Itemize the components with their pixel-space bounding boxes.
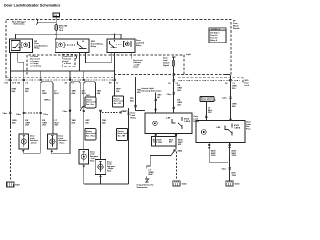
junction C4xx right — [229, 168, 231, 170]
wire actuator LR to bus3 — [83, 164, 85, 184]
ground G303 — [226, 181, 240, 186]
wire drop from bus — [41, 71, 84, 80]
door lock switch signal column — [172, 57, 176, 60]
svg-text:Pass: Pass — [246, 128, 252, 130]
svg-text:D2: D2 — [225, 83, 227, 85]
I/P fuse block dashed box — [6, 20, 231, 78]
dashed bottom border segment — [178, 78, 243, 84]
svg-text:Light: Light — [186, 53, 191, 56]
wire split bend right — [84, 82, 96, 97]
svg-text:G302: G302 — [182, 184, 188, 186]
callout switch driver — [81, 97, 97, 111]
node label right of relay H — [194, 115, 200, 123]
right column wire into I — [230, 97, 232, 99]
actuator left rear box — [79, 150, 89, 165]
courtesy lamp text rows — [30, 55, 42, 68]
svg-text:K12: K12 — [5, 83, 8, 85]
svg-text:C2xx: C2xx — [222, 98, 228, 100]
inner dashed courtesy box — [27, 55, 231, 75]
wire relay B coil pin down — [78, 53, 80, 72]
dashed ground wire — [9, 127, 11, 181]
fuse table box — [209, 28, 226, 43]
svg-text:C4xx: C4xx — [222, 168, 228, 171]
svg-text:Schematics: Schematics — [14, 23, 26, 26]
relay box H — [145, 113, 192, 134]
svg-text:Relay: Relay — [194, 121, 200, 123]
svg-text:Relay: Relay — [91, 46, 97, 48]
svg-text:DOOR LK: DOOR LK — [211, 29, 221, 31]
wire relay C indicator pin — [130, 53, 132, 59]
master lighting callout — [200, 97, 216, 102]
callout switch upper right — [113, 96, 125, 107]
column x100.5 — [100, 111, 102, 160]
svg-text:Sw - Pass: Sw - Pass — [86, 135, 96, 137]
actuator right rear box — [95, 160, 106, 175]
I top pins — [206, 119, 230, 121]
wire drop to relay C — [114, 34, 116, 39]
bus3 wire — [84, 183, 129, 185]
svg-text:Signal: Signal — [163, 65, 169, 67]
svg-text:C2: C2 — [26, 83, 28, 85]
I bottom pins — [209, 143, 228, 163]
svg-text:Relay: Relay — [131, 117, 137, 119]
coil symbol — [22, 42, 30, 47]
lower small boxes under H — [152, 137, 177, 147]
switch box I — [196, 121, 245, 143]
svg-text:C1 8: C1 8 — [12, 83, 16, 85]
bus wire top — [16, 34, 121, 39]
dotted connector line — [5, 79, 114, 81]
svg-text:G303: G303 — [235, 184, 241, 186]
column x128.5 riser — [128, 108, 130, 184]
svg-text:C2xx: C2xx — [167, 94, 173, 96]
svg-text:G301: G301 — [15, 185, 21, 187]
svg-text:A6: A6 — [65, 82, 67, 85]
wire relay B to relay C loop — [86, 53, 112, 63]
connector marks — [40, 79, 42, 81]
svg-text:295: 295 — [25, 91, 29, 93]
svg-text:C2xx: C2xx — [43, 114, 49, 116]
H bottom pins — [155, 134, 157, 147]
connector marks on dotted line — [9, 79, 231, 82]
junction dot G302 node — [173, 149, 175, 151]
svg-text:C9: C9 — [168, 83, 170, 85]
svg-text:295: 295 — [208, 112, 212, 114]
svg-text:C1: C1 — [72, 83, 74, 85]
svg-text:B4: B4 — [18, 82, 21, 85]
wire relay C pin down — [114, 53, 116, 97]
svg-text:C4xx: C4xx — [16, 113, 22, 116]
dashed to ground G302 — [176, 152, 178, 181]
svg-text:156: 156 — [116, 91, 120, 93]
svg-text:300: 300 — [232, 88, 236, 90]
svg-text:1150: 1150 — [232, 175, 237, 177]
ground G301 — [7, 182, 21, 187]
svg-text:Lamp: Lamp — [133, 67, 139, 69]
svg-text:Relay: Relay — [136, 45, 142, 47]
svg-text:Door Lock/Indicator Schematics: Door Lock/Indicator Schematics — [4, 4, 60, 8]
svg-text:Sw - RR: Sw - RR — [118, 135, 126, 137]
relay K2 box — [55, 39, 89, 53]
wire from relay C — [136, 77, 146, 111]
svg-text:C6xx: C6xx — [63, 111, 69, 113]
svg-text:C1: C1 — [116, 83, 118, 85]
svg-text:10 A: 10 A — [59, 29, 64, 32]
junction row C4xx left — [9, 80, 11, 127]
wire relay A left pin down — [9, 53, 11, 81]
wire split bend center — [70, 82, 80, 108]
svg-text:BLK: BLK — [149, 174, 154, 176]
svg-text:Schematics: Schematics — [137, 186, 149, 189]
svg-text:S402: S402 — [178, 150, 184, 153]
svg-text:1150: 1150 — [158, 142, 163, 144]
door lock actuator pass front box — [48, 134, 58, 149]
svg-text:Rear: Rear — [90, 160, 95, 163]
wire actuator RR to bus3 — [100, 175, 102, 185]
wire fuse to bus — [55, 31, 57, 39]
wire to output label — [147, 151, 175, 169]
svg-text:Sw - LR: Sw - LR — [114, 103, 122, 105]
svg-text:BLU: BLU — [54, 93, 59, 95]
wire from C2 to fuse — [55, 17, 57, 25]
svg-text:Sw - Drv: Sw - Drv — [86, 103, 95, 106]
svg-text:GRN △: GRN △ — [44, 99, 51, 102]
wire to H box — [155, 93, 157, 114]
svg-text:▲ Dome: ▲ Dome — [63, 62, 71, 65]
svg-text:Relay: Relay — [34, 48, 40, 50]
wire — [38, 22, 57, 24]
column x23.7 to door lock actuator driver — [23, 80, 25, 134]
svg-text:GRN: GRN — [42, 93, 47, 95]
callout switch lower right — [117, 129, 129, 141]
svg-text:▲ Courtesy: ▲ Courtesy — [30, 65, 42, 68]
dashed jumper — [102, 112, 120, 114]
svg-text:295: 295 — [55, 125, 59, 127]
relay K1 box — [10, 39, 33, 53]
svg-text:Lock: Lock — [245, 85, 250, 87]
node door lock indicator dashed box — [62, 54, 75, 67]
svg-text:295: 295 — [85, 122, 89, 124]
wire color labels at splice bends — [42, 89, 101, 97]
svg-text:1.4M B: 1.4M B — [234, 127, 241, 130]
wire split bend left — [41, 82, 53, 86]
svg-text:Details: Details — [233, 27, 240, 30]
actuator pass bottom wire — [52, 149, 70, 154]
column x70 — [69, 86, 71, 154]
svg-text:Switch Schematic: Switch Schematic — [201, 99, 216, 102]
svg-text:1150: 1150 — [211, 155, 216, 157]
connector C2 block — [53, 13, 60, 17]
svg-text:1.4M: 1.4M — [216, 126, 221, 129]
svg-text:B8: B8 — [109, 83, 111, 85]
callout switch lower left — [85, 129, 97, 141]
svg-text:- Pass: - Pass — [59, 142, 66, 144]
bus2 wire — [10, 70, 114, 72]
wire through junction box — [155, 137, 157, 147]
svg-text:- Driver: - Driver — [30, 141, 37, 144]
actuator driver bottom wire — [23, 149, 41, 153]
pin arrows — [22, 135, 230, 177]
svg-text:Dimming Schematics: Dimming Schematics — [142, 89, 163, 92]
column x83.8 — [83, 86, 85, 150]
svg-text:1.4M: 1.4M — [166, 117, 171, 120]
wire labels below connector line — [12, 86, 238, 95]
pin labels at connector line — [5, 82, 235, 86]
relay K3 box — [107, 39, 135, 53]
svg-text:C4xx: C4xx — [3, 112, 9, 115]
wire relay A out — [18, 53, 24, 81]
door lock actuator driver box — [19, 134, 29, 149]
svg-text:Relay 6: Relay 6 — [210, 40, 218, 42]
node edge label — [245, 80, 250, 87]
svg-text:Rear: Rear — [107, 170, 112, 173]
fuse SEO IGN — [55, 25, 58, 31]
svg-text:1150: 1150 — [232, 155, 237, 157]
right column from bus — [224, 75, 231, 121]
svg-text:1.4M B: 1.4M B — [184, 120, 191, 123]
svg-text:C2: C2 — [176, 83, 178, 85]
